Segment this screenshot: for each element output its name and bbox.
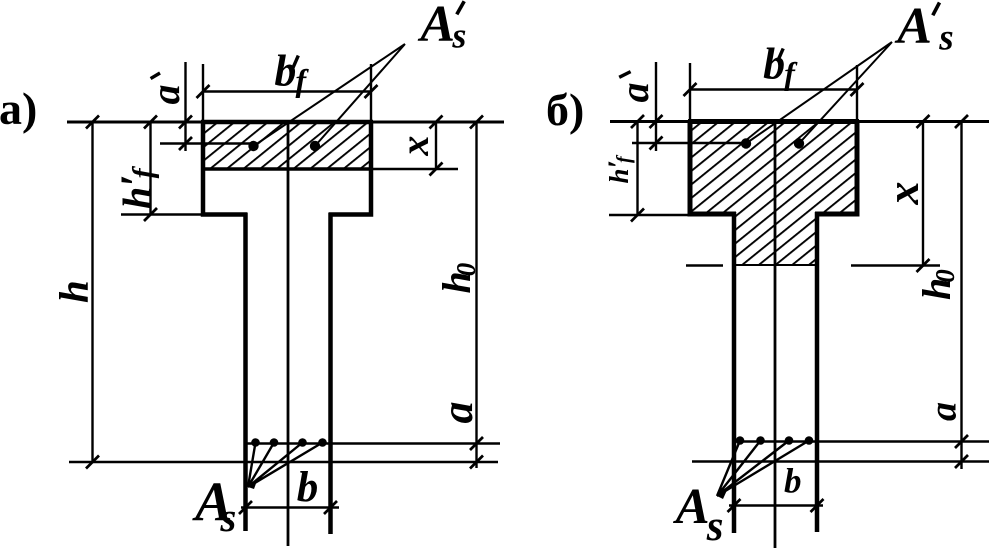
b dimension line: [729, 504, 823, 506]
x level line left of web: [686, 264, 723, 266]
As leader fan: [717, 441, 809, 497]
h0 dimension line: [475, 122, 477, 468]
top fiber line: [67, 121, 504, 124]
hatched compression zone (flange, depth x): [203, 122, 371, 169]
svg-text:a: a: [612, 83, 657, 103]
bottom fiber line: [692, 460, 989, 463]
bottom fiber line: [69, 461, 498, 464]
section centre line: [287, 122, 290, 546]
A's leader lines: [746, 42, 892, 144]
extension line above flange left: [202, 64, 204, 122]
h'f bottom extension line: [609, 214, 690, 216]
x dimension line: [435, 122, 437, 169]
b'f dimension line: [690, 88, 857, 90]
section centre line: [774, 122, 777, 548]
a' dimension line: [184, 62, 186, 151]
svg-text:s: s: [451, 15, 466, 55]
svg-text:b: b: [763, 40, 785, 89]
h dimension line: [91, 122, 93, 462]
svg-text:b: b: [297, 464, 319, 511]
svg-text:s: s: [219, 494, 236, 540]
A's leader lines: [254, 44, 406, 146]
svg-text:A: A: [417, 0, 455, 53]
As centroid line: [733, 440, 989, 442]
compression depth boundary in web: [734, 264, 817, 266]
top rebar dot 2: [310, 141, 320, 151]
flange top edge: [201, 120, 373, 125]
hatch zone bottom edge: [203, 167, 371, 171]
h0 dimension line: [960, 122, 962, 470]
top rebar dot 1: [741, 138, 751, 148]
svg-text:b: b: [784, 461, 802, 500]
As centroid line: [246, 442, 500, 444]
b dimension line: [241, 506, 339, 508]
svg-text:A: A: [894, 0, 932, 55]
svg-text:a: a: [433, 402, 482, 424]
extension line above flange left: [689, 63, 691, 122]
top rebar dot 1: [248, 141, 258, 151]
As leader arrowhead: [248, 478, 258, 489]
a' dimension line: [655, 62, 657, 151]
web left edge: [243, 213, 248, 532]
svg-text:a: a: [143, 85, 188, 105]
x level line right of web: [851, 264, 940, 266]
web right edge: [815, 212, 820, 532]
hatched compression zone (flange + web, depth x): [690, 122, 857, 266]
bottom rebar dots: [736, 436, 745, 445]
svg-text:x: x: [877, 182, 928, 206]
web left edge: [732, 212, 737, 533]
svg-text:a: a: [923, 402, 965, 421]
h'f dimension line: [149, 122, 151, 215]
a' centroid line: [160, 142, 255, 144]
svg-text:h: h: [51, 280, 97, 303]
As leader arrowhead: [717, 488, 728, 499]
svg-text:x: x: [392, 136, 437, 157]
x bottom extension line: [371, 168, 458, 170]
svg-text:s: s: [938, 18, 953, 59]
ticks figure B: [631, 83, 968, 512]
As leader fan: [248, 443, 323, 488]
extension line above flange right: [856, 65, 858, 122]
extension line above flange right: [370, 64, 372, 122]
flange outline: [690, 122, 857, 215]
top rebar dot 2: [794, 138, 804, 148]
web right edge: [328, 213, 333, 535]
b'f dimension line: [203, 90, 371, 92]
ticks figure A: [86, 85, 483, 514]
flange outline: [203, 122, 371, 215]
svg-text:b: b: [274, 47, 296, 96]
h'f dimension line: [636, 122, 638, 216]
a' centroid line: [632, 142, 748, 144]
flange top edge: [688, 119, 859, 124]
svg-text:б): б): [546, 84, 584, 135]
h'f bottom extension line: [121, 213, 244, 215]
svg-text:s: s: [706, 503, 724, 548]
top fiber line: [610, 120, 989, 123]
bottom rebar dots: [251, 438, 260, 447]
svg-text:A: A: [673, 479, 710, 535]
x dimension line: [922, 122, 924, 266]
svg-text:а): а): [0, 83, 37, 134]
